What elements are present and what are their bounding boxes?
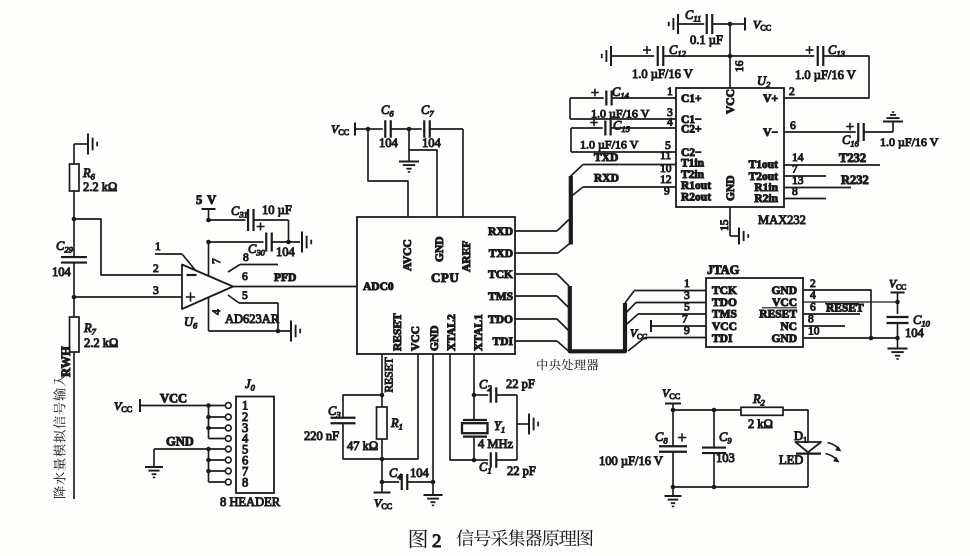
node C4 right — [431, 480, 436, 485]
svg-text:1: 1 — [155, 241, 161, 253]
VCC terminal LED — [662, 386, 681, 410]
node C4 left — [380, 480, 385, 485]
max232 right pin numbers — [789, 86, 804, 198]
svg-text:1.0 µF/16 V: 1.0 µF/16 V — [580, 138, 639, 152]
resistor R2 — [741, 392, 783, 431]
ground (C10) — [888, 349, 908, 359]
svg-text:104: 104 — [52, 265, 72, 279]
svg-text:VCC: VCC — [662, 386, 680, 401]
node VCC-C6 — [366, 127, 371, 132]
svg-text:VCC: VCC — [331, 122, 349, 137]
node C9 top — [712, 408, 717, 413]
svg-text:T1out: T1out — [749, 159, 779, 171]
svg-text:22 pF: 22 pF — [506, 377, 535, 391]
node XTAL2-C1 — [472, 458, 477, 463]
node C29 bottom / pin3 — [72, 295, 77, 300]
op-amp ground wire — [209, 330, 291, 332]
svg-text:MAX232: MAX232 — [758, 213, 806, 227]
svg-text:T232: T232 — [839, 151, 866, 165]
resistor R6 — [70, 164, 118, 194]
svg-text:VCC: VCC — [410, 326, 422, 351]
svg-text:C31: C31 — [231, 204, 248, 220]
pin 1 (RG) — [155, 241, 196, 271]
wire R2in stub — [784, 198, 826, 200]
VCC terminal C10 — [889, 279, 906, 315]
svg-text:C2+: C2+ — [681, 124, 702, 136]
svg-text:CPU: CPU — [431, 270, 459, 285]
connector J0 — [220, 377, 281, 509]
svg-text:104: 104 — [422, 136, 442, 150]
svg-text:C11: C11 — [685, 8, 701, 24]
svg-text:220 nF: 220 nF — [304, 429, 339, 443]
svg-text:Y1: Y1 — [494, 419, 505, 435]
svg-text:R7: R7 — [83, 321, 97, 337]
svg-text:TXD: TXD — [489, 248, 513, 260]
wire TDI cpu — [515, 341, 569, 352]
svg-text:C13: C13 — [828, 43, 845, 59]
ground (C6C7) — [399, 129, 419, 172]
5V supply terminal — [196, 193, 217, 220]
svg-text:C29: C29 — [56, 239, 74, 255]
svg-text:NC: NC — [780, 321, 797, 333]
svg-text:VCC: VCC — [160, 392, 187, 406]
svg-text:C14: C14 — [612, 85, 630, 101]
svg-text:1.0 µF/16 V: 1.0 µF/16 V — [880, 135, 939, 149]
svg-text:R232: R232 — [841, 173, 869, 187]
svg-text:6: 6 — [810, 302, 816, 314]
GND rail J0 — [145, 435, 225, 478]
capacitor C16 — [784, 112, 939, 149]
svg-text:VCC: VCC — [753, 18, 771, 33]
svg-text:JTAG: JTAG — [707, 263, 740, 277]
svg-text:J0: J0 — [245, 377, 256, 393]
rail R2 to LED — [783, 410, 808, 442]
svg-text:AVCC: AVCC — [402, 239, 414, 271]
CPU U3 box — [357, 217, 515, 354]
svg-text:104: 104 — [410, 466, 430, 480]
JTAG box — [706, 278, 803, 347]
wire JTAG pin8 NC — [803, 314, 845, 327]
svg-text:C30: C30 — [248, 242, 266, 258]
crystal Y1 — [462, 395, 514, 460]
svg-text:ADC0: ADC0 — [363, 281, 394, 293]
svg-text:104: 104 — [905, 326, 925, 340]
svg-text:TMS: TMS — [488, 291, 513, 303]
resistor R1 — [347, 395, 403, 459]
capacitor C30 — [209, 233, 301, 260]
svg-text:5: 5 — [242, 290, 248, 302]
svg-text:VCC: VCC — [712, 321, 737, 333]
ground (C30) — [302, 232, 311, 253]
svg-text:22 pF: 22 pF — [507, 464, 536, 478]
wire TXD to max232 — [570, 152, 676, 177]
caption figure 2 — [410, 529, 593, 552]
svg-text:XTAL1: XTAL1 — [473, 314, 485, 351]
node op-amp ground — [276, 329, 281, 334]
output PFD wire pin 6 — [233, 271, 357, 287]
svg-text:2: 2 — [153, 263, 159, 275]
svg-text:U2: U2 — [757, 74, 771, 90]
wire RESET — [382, 354, 396, 395]
bus serial — [569, 176, 573, 245]
svg-text:R1: R1 — [390, 416, 403, 432]
wire pin16 vcc — [729, 24, 731, 56]
svg-text:VCC: VCC — [725, 89, 737, 114]
svg-text:C9: C9 — [719, 430, 732, 446]
node XTAL1 — [472, 393, 477, 398]
wire TMS cpu — [515, 296, 569, 308]
svg-text:15: 15 — [719, 219, 731, 231]
ground (input top) — [74, 134, 97, 165]
svg-text:4: 4 — [211, 309, 223, 315]
wire JTAG pin2 — [803, 278, 871, 338]
ground (crystal) — [517, 414, 538, 435]
capacitor C8 — [599, 410, 687, 487]
svg-text:5: 5 — [684, 302, 690, 314]
capacitor C14 loop — [570, 85, 676, 121]
svg-text:2.2 kΩ: 2.2 kΩ — [83, 180, 117, 194]
svg-text:16: 16 — [734, 60, 746, 72]
node C11-VCC — [728, 22, 733, 27]
svg-text:10 µF: 10 µF — [262, 203, 292, 217]
svg-text:2: 2 — [789, 86, 795, 98]
capacitor C12 — [602, 43, 730, 81]
svg-text:7: 7 — [211, 258, 223, 264]
svg-text:R2out: R2out — [681, 192, 711, 204]
wire XTAL2 — [450, 354, 474, 460]
pin15 stub + ground — [719, 207, 748, 245]
svg-text:TDI: TDI — [493, 336, 514, 348]
svg-text:TXD: TXD — [594, 152, 618, 164]
svg-text:C2: C2 — [479, 378, 492, 394]
wire VCC pin down — [382, 354, 418, 459]
wire AREF — [462, 129, 464, 217]
capacitor C13 — [730, 43, 869, 98]
node C12 rail — [728, 54, 733, 59]
node C30-C31-ground — [286, 240, 291, 245]
VCC terminal JTAG pin7 — [630, 314, 706, 342]
svg-text:R2: R2 — [752, 392, 766, 408]
capacitor C9 — [702, 410, 735, 487]
svg-text:4: 4 — [810, 290, 816, 302]
svg-text:GND: GND — [725, 175, 737, 201]
pin 7 supply wire — [209, 242, 224, 277]
svg-text:1: 1 — [684, 278, 690, 290]
node C10 bottom — [895, 336, 900, 341]
svg-text:TCK: TCK — [712, 285, 737, 297]
svg-text:C8: C8 — [655, 430, 668, 446]
wire R1in R232 — [784, 173, 869, 188]
wire to VCC terminal — [374, 459, 393, 511]
wire AVCC — [368, 129, 408, 217]
svg-text:0.1 µF: 0.1 µF — [690, 33, 723, 47]
svg-text:5 V: 5 V — [196, 193, 217, 207]
svg-text:VCC: VCC — [630, 328, 647, 341]
capacitor C11 — [669, 8, 730, 47]
ground (LED) — [665, 487, 682, 506]
svg-text:R2in: R2in — [754, 193, 778, 205]
capacitor C10 — [887, 313, 931, 348]
capacitor C6 — [368, 103, 409, 150]
J0 bus pins 5-8 — [209, 449, 226, 482]
wire T1out T232 — [784, 151, 880, 165]
svg-text:LED: LED — [779, 453, 803, 467]
svg-text:C1+: C1+ — [681, 93, 702, 105]
svg-text:C7: C7 — [421, 103, 434, 119]
ground (op-amp) — [291, 321, 300, 342]
svg-text:C4: C4 — [389, 466, 402, 482]
wire JTAG pin3 — [626, 290, 706, 313]
svg-text:AD623AR: AD623AR — [225, 312, 280, 326]
svg-text:103: 103 — [716, 451, 735, 465]
svg-text:12: 12 — [660, 174, 672, 186]
svg-text:AREF: AREF — [461, 241, 473, 272]
capacitor C3 — [304, 395, 382, 459]
svg-text:1: 1 — [667, 86, 673, 98]
svg-text:10: 10 — [808, 326, 820, 338]
wire JTAG pin4 — [803, 290, 898, 303]
svg-text:TDO: TDO — [712, 297, 737, 309]
wire JTAG pin9 TDI — [628, 325, 706, 351]
MAX232 U2 box — [676, 88, 784, 207]
wire RWH input — [73, 352, 75, 499]
node LED rail left — [671, 408, 676, 413]
svg-text:VCC: VCC — [889, 279, 906, 292]
svg-text:2: 2 — [810, 278, 816, 290]
svg-text:104: 104 — [379, 136, 399, 150]
svg-text:TDI: TDI — [712, 333, 733, 345]
svg-text:3: 3 — [684, 290, 690, 302]
node pin2-pin10 — [869, 336, 874, 341]
VCC terminal top right — [730, 18, 771, 33]
capacitor C31 — [209, 203, 292, 242]
svg-text:VCC: VCC — [374, 496, 392, 511]
svg-text:U6: U6 — [184, 315, 198, 331]
net label RWH input (vertical) — [53, 346, 73, 498]
svg-text:RESET: RESET — [392, 313, 404, 351]
J0 bus pins 1-4 — [209, 406, 226, 439]
svg-text:4 MHz: 4 MHz — [478, 437, 514, 451]
svg-text:C16: C16 — [842, 133, 860, 149]
wire GND pin top — [409, 150, 437, 217]
svg-text:VCC: VCC — [772, 297, 797, 309]
node R1 bottom — [380, 457, 385, 462]
svg-text:6: 6 — [242, 271, 248, 283]
pin 8 (RG) — [228, 252, 278, 272]
svg-text:RESET: RESET — [384, 357, 396, 392]
svg-text:7: 7 — [682, 314, 688, 326]
wire TCK cpu — [515, 274, 569, 286]
node below R6 — [72, 217, 77, 222]
capacitor C15 loop — [571, 119, 676, 153]
svg-text:D1: D1 — [794, 429, 807, 445]
pin 4 supply wire — [209, 297, 224, 331]
svg-text:1.0 µF/16 V: 1.0 µF/16 V — [632, 67, 693, 81]
svg-text:T1in: T1in — [681, 158, 705, 170]
svg-text:2 kΩ: 2 kΩ — [748, 417, 773, 431]
svg-text:8 HEADER: 8 HEADER — [220, 495, 281, 509]
svg-text:RESET: RESET — [759, 309, 797, 321]
op-amp U6 AD623AR — [182, 265, 280, 331]
wire JTAG pin6 RESET — [803, 302, 864, 315]
svg-text:PFD: PFD — [274, 272, 296, 284]
svg-text:TCK: TCK — [488, 269, 513, 281]
node C10 top — [895, 300, 900, 305]
wire TDO cpu — [515, 319, 569, 331]
svg-text:RESET: RESET — [826, 303, 864, 315]
LED bottom rail — [673, 486, 808, 488]
node RESET — [380, 393, 385, 398]
svg-text:V−: V− — [763, 127, 778, 139]
wire node to pin2 — [74, 219, 182, 275]
svg-text:C12: C12 — [669, 43, 687, 59]
svg-text:GND: GND — [166, 435, 194, 449]
wire TXD cpu — [515, 243, 570, 253]
svg-text:V+: V+ — [763, 93, 778, 105]
node 5V-C31 — [206, 218, 211, 223]
rail to R2 — [673, 409, 741, 411]
wire R6 to C29 node — [73, 191, 75, 219]
svg-text:C3: C3 — [328, 404, 341, 420]
svg-text:R1out: R1out — [681, 180, 711, 192]
capacitor C1 — [474, 452, 536, 478]
capacitor C2 — [474, 377, 535, 460]
wire XTAL1 — [473, 354, 475, 395]
wire RXD to max232 — [570, 173, 676, 198]
svg-text:TDO: TDO — [488, 314, 513, 326]
label CPU chinese — [537, 359, 598, 370]
svg-text:GND: GND — [429, 325, 441, 351]
max232 left pin numbers — [660, 86, 673, 198]
svg-text:8: 8 — [808, 314, 814, 326]
node 5V-C30 — [206, 240, 211, 245]
wire JTAG pin1 — [625, 278, 706, 303]
svg-text:100 µF/16 V: 100 µF/16 V — [599, 454, 663, 468]
svg-text:C15: C15 — [613, 119, 630, 135]
pin 5 (REF) — [228, 290, 278, 331]
svg-text:RXD: RXD — [488, 226, 513, 238]
svg-text:14: 14 — [792, 152, 804, 164]
svg-text:GND: GND — [771, 285, 797, 297]
svg-text:RXD: RXD — [594, 173, 619, 185]
svg-text:XTAL2: XTAL2 — [446, 314, 458, 351]
svg-text:VCC: VCC — [114, 399, 132, 414]
VCC rail J0 — [140, 392, 225, 406]
capacitor C7 — [409, 103, 463, 150]
capacitor C29 — [52, 219, 87, 297]
VCC terminal J0 — [114, 399, 140, 414]
wire T2out stub — [784, 175, 826, 177]
node C6-C7-gnd — [407, 127, 412, 132]
svg-text:C6: C6 — [381, 103, 394, 119]
svg-text:2: 2 — [432, 531, 442, 552]
LED D1 — [779, 429, 842, 487]
wire JTAG pin10 — [803, 326, 898, 339]
bus JTAG — [570, 286, 625, 351]
svg-text:9: 9 — [664, 186, 670, 198]
wire GND pin down + ground — [424, 354, 443, 505]
svg-text:104: 104 — [276, 245, 296, 259]
wire node to pin3 — [74, 296, 182, 298]
svg-text:GND: GND — [771, 333, 797, 345]
wire JTAG pin5 — [626, 302, 706, 326]
svg-text:47 kΩ: 47 kΩ — [347, 439, 378, 453]
svg-text:8: 8 — [242, 476, 248, 490]
capacitor C4 — [382, 466, 433, 490]
wire RXD cpu — [515, 220, 569, 232]
resistor R7 — [70, 297, 119, 352]
pin16 stub — [730, 56, 746, 88]
svg-text:RWH: RWH — [59, 346, 73, 377]
svg-text:2.2 kΩ: 2.2 kΩ — [84, 336, 118, 350]
svg-text:6: 6 — [790, 120, 796, 132]
svg-text:1.0 µF/16 V: 1.0 µF/16 V — [795, 68, 856, 82]
svg-text:TMS: TMS — [712, 309, 737, 321]
VCC terminal top — [331, 122, 368, 137]
svg-text:GND: GND — [434, 236, 446, 262]
svg-text:3: 3 — [153, 285, 159, 297]
